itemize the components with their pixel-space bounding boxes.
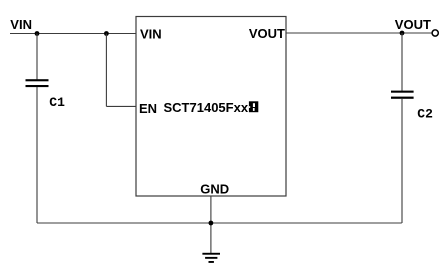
IC U1 SCT71405FxxQ body (136, 17, 286, 197)
node VOUT label (output terminal) (395, 17, 431, 32)
svg-text:SCT71405Fxx: SCT71405Fxx (164, 100, 249, 115)
wire VIN input rail (left horizontal) (10, 33, 136, 35)
capacitor C2 value label (417, 107, 433, 122)
wire EN horizontal into pin (106, 105, 136, 107)
junction dot at C2 / VOUT rail (400, 31, 405, 36)
output terminal open circle (432, 30, 438, 36)
wire C2 bottom lead down to ground rail (401, 99, 403, 223)
wire ground rail (bottom horizontal) (37, 222, 402, 224)
junction dot at C1 / VIN rail (35, 31, 40, 36)
svg-text:C1: C1 (49, 95, 65, 110)
IC pin label EN (139, 101, 157, 116)
capacitor C2 plates (391, 91, 414, 99)
svg-text:C2: C2 (417, 107, 433, 122)
capacitor C1 plates (26, 79, 49, 87)
wire C1 top lead (36, 34, 38, 80)
IC part number SCT71405FxxQ (164, 100, 259, 115)
svg-text:GND: GND (200, 182, 229, 197)
capacitor C1 value label (49, 95, 65, 110)
svg-text:VIN: VIN (10, 17, 32, 32)
wire VOUT rail (right horizontal) (286, 32, 432, 34)
IC pin label VIN (140, 27, 162, 42)
IC pin label VOUT (249, 26, 285, 41)
junction dot GND pin / ground rail (209, 221, 214, 226)
IC pin label GND (200, 182, 229, 197)
ground symbol (202, 253, 220, 263)
svg-text:VOUT: VOUT (395, 17, 431, 32)
wire EN tap vertical (105, 34, 107, 107)
svg-text:VOUT: VOUT (249, 26, 285, 41)
svg-text:EN: EN (139, 101, 157, 116)
wire C2 top lead (401, 33, 403, 91)
svg-text:VIN: VIN (140, 27, 162, 42)
wire C1 bottom lead down to ground rail (36, 87, 38, 223)
node VIN label (input terminal) (10, 17, 32, 32)
junction dot at EN tap on VIN rail (104, 31, 109, 36)
wire GND pin vertical to ground symbol (210, 196, 212, 253)
